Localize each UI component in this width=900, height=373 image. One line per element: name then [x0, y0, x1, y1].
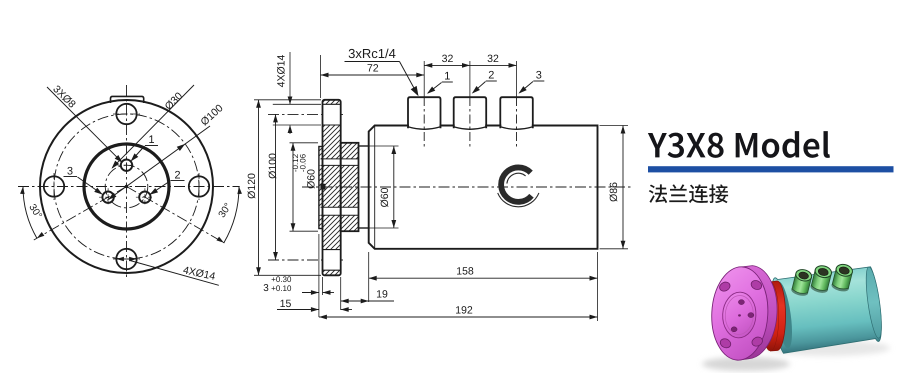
centerline ticks of bottom hole — [113, 258, 140, 260]
circle D30 (dash-dot) — [105, 165, 148, 208]
flange side surface — [738, 266, 777, 361]
label 1 with leader — [149, 135, 154, 143]
green port 1 — [790, 268, 813, 297]
dim 192 — [318, 234, 320, 317]
boss small hole 3 — [748, 313, 754, 318]
centerline ticks of right hole — [198, 173, 200, 200]
bolt hole D14 left — [44, 176, 64, 196]
dim 19 — [340, 277, 342, 310]
bolt circle D100 (dash-dot) — [54, 114, 199, 259]
blue underline bar — [648, 166, 894, 172]
dim 32 (port2-port3) — [470, 64, 517, 66]
bolt hole D14 right — [189, 176, 209, 196]
pilot boss outline — [319, 147, 323, 229]
leader 3X D8 pointing to hole 1 — [47, 87, 121, 162]
dim D120 — [247, 174, 255, 199]
flange outer circle D120 — [40, 100, 213, 273]
label 2 with leader — [175, 171, 180, 179]
30 deg dimension left — [23, 187, 37, 239]
dim 15 — [300, 309, 319, 311]
dim 32 (port1-port2) — [424, 64, 470, 66]
port 3 (Rc1/4 connection) — [500, 97, 533, 128]
wire: front view horizontal centerline — [18, 186, 240, 188]
red seal ring — [770, 281, 786, 351]
bolt hole edges in flange — [323, 103, 341, 105]
dim D60 -0.06/-0.12 (spigot) — [307, 169, 315, 188]
30 deg dimension right — [224, 187, 239, 243]
leader D30 — [112, 85, 194, 168]
bolt hole D14 top — [116, 104, 136, 124]
shadow under part — [702, 357, 790, 371]
logo C inside body — [501, 167, 531, 201]
dim 4X D14 (flange hole) — [277, 55, 285, 87]
port label 2 — [489, 71, 494, 79]
dim 72 — [320, 55, 322, 98]
center boss on flange — [722, 291, 758, 338]
flange pilot boss section (hatched) — [319, 147, 323, 229]
dim 3xRc1/4 with leader — [349, 49, 396, 59]
pilot circle D60 (bold) — [84, 144, 169, 229]
title Y3X8 Model — [648, 131, 830, 158]
dim D60 (body bore) — [380, 188, 388, 207]
tab on top of flange — [111, 96, 144, 103]
body chamfer line — [374, 126, 376, 249]
front view: flange face — [18, 85, 242, 286]
centerline ticks of left hole — [53, 173, 55, 200]
wire: bottom bolt hole axis — [268, 259, 346, 261]
teal body cylinder — [772, 267, 881, 354]
passage hole D8 #3 (left) — [102, 192, 113, 203]
wire: front view vertical centerline — [126, 85, 128, 279]
port label 3 — [536, 71, 541, 79]
center dot — [125, 185, 129, 189]
port 2 (Rc1/4 connection) — [454, 97, 487, 128]
wire: radial centerline 330 deg — [127, 187, 225, 244]
flange bolt hole 2 — [750, 279, 763, 291]
hub spigot outline — [341, 143, 359, 231]
flange bolt hole 1 — [718, 280, 731, 292]
wire: main axis centerline — [302, 186, 632, 188]
boss small hole 1 — [738, 300, 744, 305]
boss inner rim — [724, 295, 754, 335]
subtitle 法兰连接 (flange connection) — [649, 184, 728, 203]
dim 158 — [368, 252, 370, 302]
wire: radial centerline 210 deg — [34, 187, 127, 241]
flange plate outline — [323, 100, 341, 275]
port 1 (Rc1/4 connection) — [408, 97, 441, 128]
centerline ticks of top hole — [113, 113, 140, 115]
seal element (black square) — [320, 184, 325, 190]
boss small hole 2 — [731, 327, 737, 332]
passage bore edges — [321, 158, 359, 160]
body right end cap — [863, 266, 884, 339]
green port 2 — [810, 264, 834, 294]
wire: port 2 centerline — [469, 61, 471, 97]
leader 4X D14 through bottom hole — [116, 258, 136, 260]
wire: top bolt hole axis — [268, 113, 346, 115]
green port 3 — [831, 263, 855, 293]
body cylinder outline — [369, 126, 598, 249]
wire: port 3 centerline — [516, 61, 518, 97]
leader D100 — [107, 126, 210, 200]
wire: port 1 centerline — [423, 61, 425, 97]
hub spigot section (hatched) — [341, 143, 359, 231]
label 3 with leader — [67, 167, 72, 175]
dim D86 — [609, 183, 617, 202]
passage hole D8 #2 (right) — [139, 192, 150, 203]
flange front face — [709, 265, 770, 361]
dim D100 — [268, 154, 276, 179]
flange bolt hole 3 — [719, 337, 732, 349]
port label 1 — [445, 72, 450, 80]
dark crease at body left — [772, 281, 796, 349]
spigot step lines to body — [359, 145, 369, 147]
dim 3 +0.10/+0.30 (groove) — [322, 277, 324, 295]
boss center dot — [738, 314, 741, 316]
flange plate section (hatched) — [323, 100, 341, 275]
passage hole D8 #1 (top) — [121, 160, 132, 171]
flange bolt hole 4 — [750, 335, 763, 347]
bolt hole D14 bottom — [116, 249, 136, 269]
